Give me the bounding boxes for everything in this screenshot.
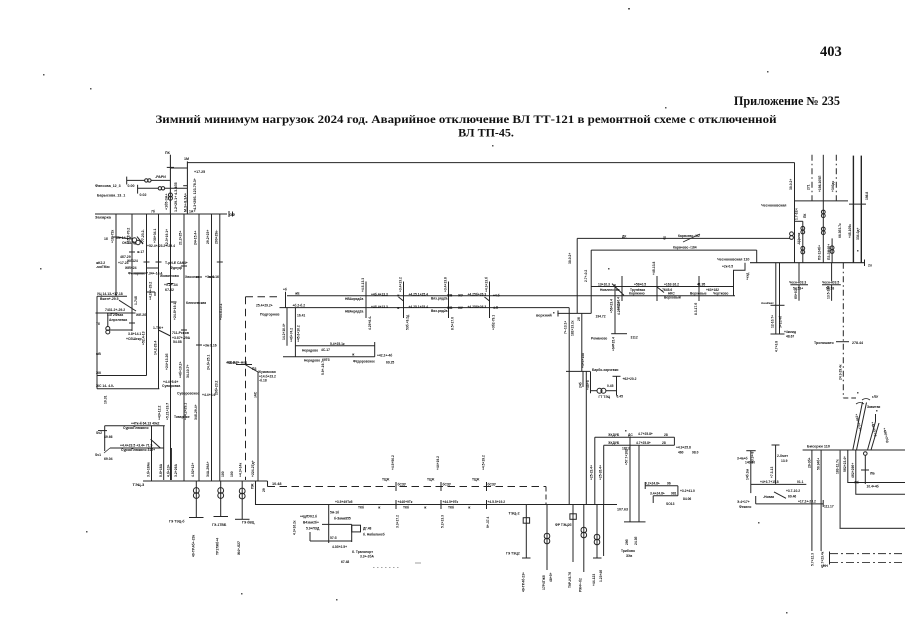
- wire vertical x151.5 to ТЭЦ-3 bus: [151, 426, 153, 481]
- svg-text:3112: 3112: [631, 336, 638, 340]
- svg-text:ТКб: ТКб: [358, 506, 364, 510]
- svg-text:+3.4+13.2: +3.4+13.2: [399, 277, 403, 292]
- svg-text:Карачево √62: Карачево √62: [678, 234, 700, 238]
- svg-text:бСЗУ: бСЗУ: [398, 483, 407, 487]
- wire Чесноковская upper y201: [795, 200, 849, 202]
- tick group on dashed x441: [440, 482, 442, 491]
- vertical x775.6: [775, 445, 777, 484]
- svg-text:49.66: 49.66: [104, 435, 113, 439]
- svg-text:Чесноковская 110: Чесноковская 110: [717, 258, 749, 262]
- svg-text:+4.5.5+19.2: +4.5.5+19.2: [488, 500, 506, 504]
- vertical x823.3: [822, 155, 824, 263]
- breaker circle x865.3: [864, 452, 868, 456]
- svg-text:34б-29.4+: 34б-29.4+: [194, 404, 198, 420]
- svg-text:Трибово: Трибово: [621, 549, 635, 553]
- riser line B to Чесноковская bus: [756, 250, 758, 263]
- wire vertical x146: [146, 214, 148, 376]
- svg-text:3.3+-2бА: 3.3+-2бА: [360, 555, 374, 559]
- svg-text:Фянсова_12_3: Фянсова_12_3: [95, 184, 121, 188]
- svg-text:+4б+74.2: +4б+74.2: [290, 328, 294, 342]
- svg-text:Вжен+-29.5: Вжен+-29.5: [100, 297, 119, 301]
- wire T2 to riser V2: [165, 187, 188, 189]
- thick vertical x861.3: [860, 156, 862, 263]
- svg-text:ПЗ-ЗМ4б+: ПЗ-ЗМ4б+: [827, 244, 831, 260]
- svg-text:198.8: 198.8: [865, 192, 869, 200]
- svg-text:6.45: 6.45: [617, 395, 624, 399]
- svg-text:200+29к-: 200+29к-: [214, 230, 218, 244]
- svg-text:ЖУ: ЖУ: [457, 294, 464, 298]
- svg-text:жЕ: жЕ: [294, 292, 300, 296]
- svg-text:14б.3м: 14б.3м: [746, 469, 750, 480]
- svg-text:1М: 1М: [184, 157, 189, 161]
- transformer circles at line A end: [790, 232, 794, 236]
- svg-text:ТЦЖ: ТЦЖ: [427, 478, 434, 482]
- wire Ана pair: [775, 263, 777, 334]
- svg-text:+3м: +3м: [203, 344, 210, 348]
- svg-text:СурокПлюкино: СурокПлюкино: [123, 426, 149, 430]
- svg-text:5б2+23.4+: 5б2+23.4+: [843, 456, 847, 472]
- svg-text:б5+бЗ: б5+бЗ: [794, 289, 798, 299]
- svg-text:ВЛ ТП-45.: ВЛ ТП-45.: [458, 126, 514, 140]
- wire vertical x171.4: [170, 448, 172, 480]
- wire vertical x219.8: [219, 214, 221, 481]
- svg-text:+3.7-10.2: +3.7-10.2: [786, 489, 800, 493]
- svg-text:Подгорнов: Подгорнов: [260, 313, 280, 317]
- svg-text:+ккд: +ккд: [746, 272, 750, 280]
- svg-text:Барбо-харчевки: Барбо-харчевки: [592, 368, 618, 372]
- svg-text:+25-23.4+: +25-23.4+: [590, 465, 594, 480]
- svg-text:НВАкряд2а: НВАкряд2а: [345, 297, 363, 301]
- svg-text:+4.5+19.2: +4.5+19.2: [482, 455, 486, 470]
- svg-text:ЖЕ.2б: ЖЕ.2б: [135, 313, 146, 317]
- wire x855.8 L to right: [856, 450, 905, 494]
- wire y389: [97, 388, 159, 390]
- wire vertical x258: [257, 372, 259, 481]
- wire Бисерки bus: [803, 449, 905, 451]
- svg-text:+4.25.1+25.4: +4.25.1+25.4: [409, 305, 429, 309]
- svg-text:4.7+3.8: 4.7+3.8: [775, 341, 779, 352]
- svg-text:Новленская: Новленская: [600, 288, 620, 292]
- vertical x750.8: [750, 451, 752, 493]
- svg-text:+52.4-13: +52.4-13: [142, 331, 146, 345]
- column Чесн-ЮЗ left: [798, 263, 800, 281]
- wire T1 to riser: [151, 179, 170, 181]
- double dashdot horizontals bottom: [830, 553, 905, 555]
- svg-text:+62+20.2: +62+20.2: [623, 377, 637, 381]
- svg-text:Жоватново: Жоватново: [159, 274, 179, 278]
- svg-text:б-Зама855: б-Зама855: [334, 517, 351, 521]
- svg-text:53б.+9.2д: 53б.+9.2д: [406, 314, 410, 330]
- svg-text:ФР ТЭЦ2б: ФР ТЭЦ2б: [555, 523, 572, 527]
- svg-text:334-0д+: 334-0д+: [856, 227, 860, 240]
- svg-text:Ж4+-б27: Ж4+-б27: [237, 541, 241, 556]
- svg-text:СурокПлюкино 312+: СурокПлюкино 312+: [121, 448, 155, 452]
- wire line1 y296: [287, 295, 735, 297]
- dashdot vertical x812: [811, 155, 813, 201]
- wire Чесноковская bus: [750, 262, 865, 264]
- svg-text:66.3б3.7к: 66.3б3.7к: [838, 223, 842, 238]
- svg-text:+4.9+25.8: +4.9+25.8: [676, 445, 691, 449]
- svg-text:ТР17Жб+4: ТР17Жб+4: [216, 538, 220, 555]
- svg-text:10.31: 10.31: [104, 395, 108, 404]
- bus ТЭЦ-2: [256, 481, 618, 505]
- svg-text:25.4+29.2+: 25.4+29.2+: [256, 303, 273, 307]
- svg-text:-ЦЦанж: -ЦЦанж: [797, 232, 801, 245]
- generator G2 lead: [220, 481, 222, 517]
- svg-text:+58+0.5: +58+0.5: [634, 283, 646, 287]
- wire below bus x811.9: [811, 450, 813, 551]
- svg-text:4б2+29б+: 4б2+29б+: [851, 463, 855, 478]
- svg-text:Чесноковская: Чесноковская: [761, 204, 786, 208]
- svg-text:Т9Р-И3.7б: Т9Р-И3.7б: [568, 572, 572, 588]
- wire line A y238.4: [577, 237, 790, 239]
- wire vertical x170: [170, 214, 172, 480]
- svg-text:Э.4+17+: Э.4+17+: [737, 500, 750, 504]
- svg-text:Приложение № 235: Приложение № 235: [734, 94, 840, 108]
- svg-text:Бисерки 110: Бисерки 110: [807, 445, 830, 449]
- tick group on dashed x486: [486, 482, 488, 491]
- svg-text:0.2+24.8+: 0.2+24.8+: [645, 482, 660, 486]
- wire vertical x199: [198, 214, 200, 481]
- svg-text:14.2+10.4+: 14.2+10.4+: [282, 323, 286, 340]
- transformer circles on x823: [821, 210, 825, 214]
- transformer circles bottom of x132: [106, 327, 110, 331]
- wire vertical x211.5: [211, 214, 213, 481]
- diagonal label strike A: [683, 234, 700, 242]
- svg-text:2-Хмет: 2-Хмет: [777, 454, 788, 458]
- svg-text:Sv1: Sv1: [95, 453, 101, 457]
- wire y313: [96, 312, 136, 314]
- svg-text:5.2+13.3: 5.2+13.3: [441, 515, 445, 528]
- svg-text:+4.5+50.2: +4.5+50.2: [391, 455, 395, 470]
- verticals to ТЭЦ-2 bus: [594, 437, 596, 504]
- horizontal y503.9: [756, 503, 824, 505]
- svg-text:Пб: Пб: [855, 481, 859, 485]
- svg-text:+3м 9.16: +3м 9.16: [205, 275, 219, 279]
- riser to Чесноковская: [734, 263, 746, 296]
- svg-text:Тропишато: Тропишато: [814, 341, 835, 345]
- diagonal: [774, 492, 786, 498]
- svg-text:+162-16.2: +162-16.2: [664, 283, 679, 287]
- svg-text:+54.б-15.1: +54.б-15.1: [219, 303, 223, 320]
- svg-text:10.4+4б: 10.4+4б: [867, 485, 879, 489]
- svg-text:Чертково: Чертково: [713, 292, 728, 296]
- svg-text:5.7+12.3: 5.7+12.3: [811, 553, 815, 566]
- svg-text:+42.2+-4б: +42.2+-4б: [377, 354, 392, 358]
- svg-text:+4+4+158: +4+4+158: [581, 353, 585, 368]
- svg-text:+43+12.2: +43+12.2: [158, 406, 162, 420]
- Тропишато tick: [836, 341, 849, 343]
- svg-text:0.02: 0.02: [140, 193, 147, 197]
- svg-text:ж.17: ж.17: [136, 250, 144, 254]
- svg-text:ЭХДУБ: ЭХДУБ: [608, 433, 620, 437]
- svg-text:5.9+-19.7: 5.9+-19.7: [321, 361, 325, 375]
- svg-text:Захарка: Захарка: [95, 215, 112, 220]
- svg-text:+17.25: +17.25: [194, 170, 205, 174]
- svg-text:24+15.4+: 24+15.4+: [194, 231, 198, 245]
- dashdot from bus to bend: [842, 263, 844, 398]
- diagonal from УЦ box to Апрелевка line: [119, 300, 136, 311]
- svg-text:1.7-1Еч: 1.7-1Еч: [795, 208, 799, 220]
- slanted pair down to Бисерки: [853, 402, 863, 450]
- svg-text:41.95: 41.95: [697, 283, 705, 287]
- svg-text:Вяз.ряд2а: Вяз.ряд2а: [431, 309, 448, 313]
- dashdot vertical x836.3: [835, 155, 837, 201]
- svg-text:+9.2+-34: +9.2+-34: [164, 283, 178, 287]
- svg-text:194.72: 194.72: [596, 314, 606, 318]
- svg-text:ЖВ: ЖВ: [446, 294, 453, 298]
- svg-text:+198-105Л: +198-105Л: [818, 175, 822, 192]
- svg-text:13.5-1б4: 13.5-1б4: [827, 286, 831, 299]
- transformer T1 circles: [145, 179, 148, 182]
- svg-text:+3.2+41.0: +3.2+41.0: [680, 489, 695, 493]
- svg-text:54.б8: 54.б8: [173, 340, 182, 344]
- generator G2 tick: [214, 516, 229, 518]
- feeder crossing C: [448, 282, 450, 319]
- svg-text:278.44: 278.44: [852, 341, 863, 345]
- svg-text:Жб124: Жб124: [126, 259, 138, 263]
- svg-text:30-0.2+: 30-0.2+: [568, 253, 572, 264]
- svg-text:4.52+12+: 4.52+12+: [191, 463, 195, 477]
- faint dotted strip: [373, 563, 421, 568]
- arrow tick on V2: [183, 185, 187, 187]
- knot diagonal at x600: [612, 284, 624, 296]
- svg-text:111.17: 111.17: [824, 505, 834, 509]
- svg-text:АнаКват: АнаКват: [761, 301, 774, 305]
- wire riser top bus end down: [794, 163, 796, 263]
- svg-text:1-ТЖ+: 1-ТЖ+: [153, 326, 163, 330]
- plain column x603.6: [603, 505, 605, 557]
- left box top wire: [97, 295, 127, 297]
- svg-text:+4б.4+13.3: +4б.4+13.3: [371, 292, 388, 296]
- svg-text:Апрелевка: Апрелевка: [109, 318, 127, 322]
- svg-text:5А-1б: 5А-1б: [330, 511, 339, 515]
- generator G2 circles: [218, 488, 224, 494]
- svg-text:29б: 29б: [625, 539, 629, 545]
- svg-text:49-ТР.4б+-23к: 49-ТР.4б+-23к: [192, 534, 196, 557]
- svg-text:1-74б: 1-74б: [134, 296, 138, 305]
- svg-text:100: 100: [221, 471, 225, 477]
- svg-text:ПЖ: ПЖ: [251, 483, 255, 489]
- svg-text:ЖК-9.3+-мод: ЖК-9.3+-мод: [226, 361, 248, 365]
- small tick on y504: [822, 500, 824, 507]
- svg-text:13+10.3: 13+10.3: [598, 283, 610, 287]
- svg-text:ДГ.48: ДГ.48: [363, 527, 372, 531]
- svg-text:4.7+25.8+: 4.7+25.8+: [638, 432, 653, 436]
- svg-text:ПК: ПК: [165, 151, 171, 155]
- feeder crossing G: [698, 276, 700, 301]
- bus end tick: [228, 211, 230, 217]
- svg-text:7б: 7б: [151, 210, 155, 214]
- svg-text:+44-123: +44-123: [592, 574, 596, 586]
- wire x569 down to ТЭЦ-2 bus: [568, 308, 570, 505]
- svg-text:17Р4ТЖб: 17Р4ТЖб: [542, 575, 546, 590]
- svg-text:ЖВ: ЖВ: [446, 306, 453, 310]
- bus Захарка: [95, 213, 227, 215]
- svg-text:Чесн-ЮЗ.3: Чесн-ЮЗ.3: [789, 281, 806, 285]
- generator G1 circles: [193, 488, 199, 494]
- dashed wire vertical x244: [245, 297, 247, 480]
- svg-text:8.3-17.б: 8.3-17.б: [694, 303, 698, 315]
- svg-text:3.8+14.1: 3.8+14.1: [128, 332, 141, 336]
- svg-text:5.9+ПЗД: 5.9+ПЗД: [306, 527, 320, 531]
- svg-text:+4б+19.2+: +4б+19.2+: [179, 361, 183, 378]
- svg-text:28: 28: [664, 433, 668, 437]
- svg-text:12-10.7+: 12-10.7+: [771, 315, 775, 328]
- svg-text:+340дк: +340дк: [831, 180, 835, 192]
- svg-text:69.46: 69.46: [788, 495, 796, 499]
- svg-text:+52.4+-23.2+-29.4: +52.4+-23.2+-29.4: [147, 244, 175, 248]
- generator circles x547: [546, 505, 548, 571]
- feeder crossing B: [403, 282, 405, 319]
- svg-text:7б: 7б: [96, 322, 100, 326]
- horizontal y484.4: [751, 483, 807, 485]
- svg-text:Ключевская: Ключевская: [186, 301, 206, 305]
- wire upper line y286.5: [591, 286, 733, 288]
- svg-text:+4кмид: +4кмид: [784, 330, 797, 334]
- svg-text:1б: 1б: [104, 237, 108, 241]
- mid cluster ladder: [328, 505, 330, 544]
- wire x847.8 L to right: [848, 450, 905, 483]
- svg-text:5.б+18А: 5.б+18А: [159, 463, 163, 477]
- svg-text:48.67: 48.67: [786, 335, 794, 339]
- svg-text:ПЗ: ПЗ: [252, 367, 256, 371]
- arrester circles on V1: [168, 193, 172, 197]
- svg-text:Чесн-ЮЗ.5: Чесн-ЮЗ.5: [822, 281, 839, 285]
- svg-text:+4+3.7+15.8: +4+3.7+15.8: [760, 480, 779, 484]
- svg-text:+224-27д+: +224-27д+: [251, 460, 255, 477]
- svg-text:Завитая: Завитая: [867, 405, 880, 409]
- wire x840 L to right: [840, 450, 905, 528]
- feeder crossing E right pair: [621, 276, 623, 301]
- svg-text:69.04: 69.04: [104, 457, 113, 461]
- diagonal jumper: [151, 439, 161, 448]
- svg-text:+3.4+13.8: +3.4+13.8: [444, 277, 448, 292]
- svg-text:Суворовка: Суворовка: [162, 384, 180, 388]
- svg-text:б. Набалансб: б. Набалансб: [363, 533, 385, 537]
- wire line B y250.1: [591, 249, 757, 251]
- svg-text:ЖЕН24: ЖЕН24: [124, 266, 137, 270]
- svg-text:+44.5+9Тк: +44.5+9Тк: [443, 500, 459, 504]
- svg-text:Хвоснов: Хвоснов: [185, 275, 199, 279]
- svg-text:+3б2-79.1: +3б2-79.1: [492, 315, 496, 330]
- wire to transformer T2: [138, 187, 158, 189]
- svg-text:4.3б+2.5+: 4.3б+2.5+: [332, 545, 347, 549]
- tick group on bus x396: [395, 500, 397, 509]
- svg-text:М.3+-8.3А+: М.3+-8.3А+: [184, 193, 188, 212]
- svg-text:жВ: жВ: [95, 352, 101, 356]
- svg-text:+64+15.4: +64+15.4: [612, 337, 616, 351]
- horizontal y445.3: [604, 444, 675, 446]
- svg-text:ТЭЦ-2: ТЭЦ-2: [509, 512, 520, 516]
- right cluster: [645, 485, 678, 487]
- svg-text:В4зам2б+: В4зам2б+: [303, 521, 319, 525]
- svg-text:+57.7+162: +57.7+162: [625, 449, 629, 465]
- wire y375: [97, 375, 147, 377]
- Романово tick: [611, 333, 627, 335]
- svg-text:7431.2+-29.2: 7431.2+-29.2: [105, 308, 125, 312]
- ГТ ТЭЦ cluster wires: [590, 371, 592, 393]
- svg-text:+77-23.2-: +77-23.2-: [141, 229, 145, 244]
- wire line2 y307.6: [280, 307, 570, 309]
- svg-text:Вяз.ряд2а: Вяз.ряд2а: [431, 296, 448, 300]
- svg-text:+4б-13.8: +4б-13.8: [652, 262, 656, 275]
- tick on x146 y273: [134, 272, 147, 274]
- svg-text:ТЦЖ: ТЦЖ: [382, 478, 389, 482]
- svg-text:+44б+9Тк: +44б+9Тк: [398, 500, 413, 504]
- svg-text:4.б+13+: 4.б+13+: [167, 464, 171, 477]
- svg-text:+4.24+-29.2: +4.24+-29.2: [149, 282, 153, 300]
- svg-text:ГЭ ТЭЦ-б: ГЭ ТЭЦ-б: [169, 520, 184, 524]
- svg-text:Ткварное: Ткварное: [174, 415, 190, 419]
- generator G1 lead: [195, 481, 197, 518]
- svg-text:ОФ: ОФ: [230, 213, 236, 217]
- generator circles x583.8: [583, 505, 585, 573]
- dashed wire corner to middle band: [246, 296, 279, 298]
- svg-text:бСЗУ: бСЗУ: [443, 483, 452, 487]
- svg-text:ЗХв: ЗХв: [626, 554, 632, 558]
- bus ТЭЦ-3: [143, 480, 268, 482]
- connector V1-V2: [170, 167, 187, 169]
- svg-text:Жуковская: Жуковская: [257, 370, 276, 374]
- wire x586 down to bus: [585, 371, 587, 504]
- svg-text:+4.5-13.3: +4.5-13.3: [361, 278, 365, 292]
- svg-text:8.5+17.6: 8.5+17.6: [451, 317, 455, 330]
- svg-text:Суворовское: Суворовское: [177, 392, 199, 396]
- wire right end stub of ТЭЦ-3 bus: [267, 481, 269, 487]
- Sv1 branch wire: [110, 447, 164, 449]
- svg-text:+45.6+10.2: +45.6+10.2: [297, 325, 301, 342]
- svg-text:ЖУ: ЖУ: [457, 306, 464, 310]
- feeder crossing A: [365, 282, 367, 319]
- svg-text:5.4+25.1к: 5.4+25.1к: [330, 342, 345, 346]
- svg-text:57.б: 57.б: [330, 536, 337, 540]
- svg-text:б. Транспорт: б. Транспорт: [352, 550, 373, 554]
- svg-text:+18+72к: +18+72к: [111, 229, 115, 243]
- wire vertical x163.7: [163, 426, 165, 480]
- svg-text:711-Рснов: 711-Рснов: [172, 331, 189, 335]
- svg-text:4.7+25.8+: 4.7+25.8+: [636, 441, 651, 445]
- svg-text:ГЭ ТЭЦ2: ГЭ ТЭЦ2: [506, 552, 520, 556]
- svg-text:14.2-29.4: 14.2-29.4: [154, 341, 158, 355]
- svg-text:403: 403: [820, 44, 842, 60]
- small jumper wires: [116, 237, 132, 239]
- svg-text:+30+34.1: +30+34.1: [153, 229, 157, 243]
- svg-text:48+б+: 48+б+: [549, 572, 553, 582]
- svg-text:9.16: 9.16: [210, 344, 217, 348]
- svg-text:24.3б: 24.3б: [634, 537, 638, 545]
- dashed feeder y486.5: [268, 486, 547, 488]
- svg-text:бСЗУ: бСЗУ: [488, 483, 497, 487]
- svg-text:Романово: Романово: [591, 337, 607, 341]
- svg-text:Корякино: Корякино: [629, 292, 645, 296]
- tick group on dashed x396: [395, 482, 397, 491]
- column Чесн-ЮЗ right: [831, 263, 833, 281]
- svg-text:96: 96: [667, 482, 671, 486]
- svg-text:34-10.7+: 34-10.7+: [186, 365, 190, 378]
- svg-text:01.1: 01.1: [797, 480, 804, 484]
- svg-text:+2к-0.5: +2к-0.5: [722, 265, 733, 269]
- svg-text:14+14.7 +: 14+14.7 +: [116, 236, 131, 240]
- svg-text:+5.21+19.7: +5.21+19.7: [166, 403, 170, 420]
- svg-text:ЖК: ЖК: [95, 371, 102, 375]
- svg-text:1.23+4б: 1.23+4б: [599, 570, 603, 582]
- wire vertical x184: [183, 214, 185, 481]
- svg-text:5+10.4б: 5+10.4б: [779, 316, 783, 328]
- feeder breaker w/ box: [525, 505, 527, 559]
- generator G3 circles: [239, 488, 245, 494]
- svg-text:НН: НН: [823, 564, 828, 568]
